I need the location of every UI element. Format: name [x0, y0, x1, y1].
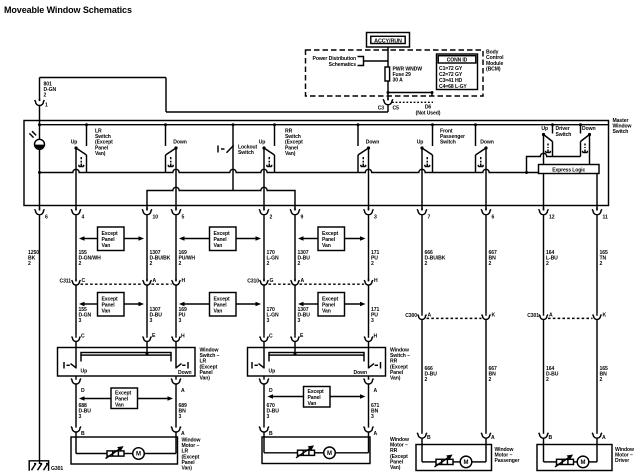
svg-text:A: A	[153, 278, 157, 284]
svg-text:Switch: Switch	[556, 132, 572, 138]
window switch LR pin D	[71, 376, 85, 394]
fuse PWR WNDW Fuse 29 30A	[385, 67, 422, 84]
switch RR box Down	[354, 362, 381, 376]
wire 1307 D-BU/BK	[146, 215, 148, 281]
svg-text:B: B	[269, 431, 273, 437]
window switch RR label	[390, 348, 410, 382]
node D6 branch wire	[387, 91, 434, 96]
svg-text:A: A	[491, 435, 495, 441]
svg-text:2: 2	[600, 377, 603, 383]
svg-text:C300: C300	[405, 313, 417, 319]
svg-text:3: 3	[79, 318, 82, 324]
wire into LR motor A	[175, 432, 177, 437]
svg-text:9: 9	[301, 215, 304, 221]
svg-text:H: H	[181, 334, 185, 340]
BCM dashed box	[306, 50, 484, 96]
wire 171 PU lower	[368, 285, 370, 335]
connector C311 pin H	[172, 278, 186, 285]
svg-text:A: A	[428, 313, 432, 319]
window switch RR box	[248, 348, 386, 377]
svg-text:ACCY/RUN: ACCY/RUN	[374, 39, 402, 45]
svg-text:Switch: Switch	[613, 129, 629, 135]
wire label 155 D-GN 3	[79, 307, 92, 324]
switch RR box Up	[252, 362, 275, 375]
svg-text:Van: Van	[308, 401, 317, 407]
lockout switch	[218, 123, 258, 190]
svg-text:Van): Van)	[200, 376, 211, 382]
connector C3 C5	[378, 98, 399, 112]
wire into LR motor B	[75, 432, 77, 437]
wire RR up output	[263, 148, 265, 210]
svg-text:Van: Van	[115, 403, 124, 409]
wire label 164 D-BU 2	[546, 366, 559, 383]
connector C301	[527, 313, 592, 319]
window switch LR box	[58, 348, 196, 377]
wire RR down output	[368, 148, 370, 210]
pin 11 master	[592, 208, 608, 221]
svg-text:A: A	[301, 278, 305, 284]
svg-text:C4=68 L-GY: C4=68 L-GY	[439, 84, 467, 90]
svg-text:2: 2	[371, 261, 374, 267]
svg-text:Van: Van	[322, 309, 331, 315]
wire driver down output	[590, 135, 598, 211]
switch driver Up	[542, 123, 554, 156]
svg-text:Passenger: Passenger	[495, 458, 520, 464]
switch LR box Up	[64, 362, 87, 375]
wire label 170 L-GN 2	[267, 250, 279, 267]
svg-text:(BCM): (BCM)	[486, 67, 501, 73]
svg-text:2: 2	[28, 261, 31, 267]
svg-text:C301: C301	[527, 313, 539, 319]
wire into LR switch E	[146, 342, 148, 353]
wire into driver motor A	[596, 438, 598, 444]
except panel van note A1	[79, 227, 144, 251]
svg-text:2: 2	[270, 215, 273, 221]
svg-text:M: M	[464, 460, 469, 466]
svg-text:Up: Up	[81, 369, 88, 375]
connector C310 pin G	[260, 278, 274, 285]
except panel van note B1	[79, 293, 144, 317]
svg-text:H: H	[374, 278, 378, 284]
switch RR Up	[262, 123, 276, 172]
window motor RR box	[262, 437, 370, 464]
svg-text:D-BU/BK: D-BU/BK	[425, 256, 446, 262]
svg-text:Van: Van	[322, 243, 331, 249]
RR switch label	[285, 129, 303, 157]
svg-text:1: 1	[45, 103, 48, 109]
svg-text:Down: Down	[178, 370, 191, 376]
wire label 667 BN 2	[489, 250, 497, 267]
wire label 688 D-BU 3	[79, 403, 92, 420]
wire 1307 D-BU	[146, 285, 148, 335]
svg-text:2: 2	[298, 261, 301, 267]
svg-text:3: 3	[371, 318, 374, 324]
svg-text:A: A	[181, 388, 185, 394]
svg-text:H: H	[182, 278, 186, 284]
svg-text:A: A	[549, 313, 553, 319]
svg-text:2: 2	[546, 261, 549, 267]
pin 9 master	[290, 208, 303, 221]
svg-text:C: C	[81, 334, 85, 340]
svg-text:B: B	[81, 431, 85, 437]
window motor driver label	[615, 447, 634, 464]
wire label 170 L-GN 3	[267, 307, 279, 324]
svg-text:M: M	[136, 452, 141, 458]
connector C310 pin H	[364, 278, 378, 285]
svg-text:3: 3	[374, 215, 377, 221]
wire label 1307 D-BU 2	[298, 250, 311, 267]
pin 2 master	[259, 208, 272, 221]
pin 12 master	[539, 208, 555, 221]
svg-text:G301: G301	[51, 466, 63, 472]
wire label 171 PU 2	[371, 250, 379, 267]
svg-text:Van): Van)	[390, 465, 401, 471]
driver switch label	[541, 126, 595, 138]
wire 1307 D-BU lower	[294, 285, 296, 335]
svg-text:Van: Van	[214, 309, 223, 315]
svg-text:C: C	[82, 278, 86, 284]
wire ACCY/RUN to fuse	[387, 47, 389, 67]
wire 165 TN	[596, 215, 598, 313]
wire pin1 to bus	[39, 106, 41, 140]
svg-text:Van): Van)	[390, 376, 401, 382]
wire lamp to ground bus	[38, 149, 41, 210]
except panel van note A2	[179, 227, 261, 251]
connector C300 pin A	[418, 313, 432, 320]
connector C300 pin K	[482, 313, 496, 320]
svg-text:11: 11	[603, 215, 608, 221]
svg-text:Moveable Window Schematics: Moveable Window Schematics	[4, 5, 132, 15]
switch LR Up	[74, 123, 88, 172]
svg-text:A: A	[374, 388, 378, 394]
connector C301 pin A	[539, 313, 553, 320]
feed bus wire	[38, 123, 609, 126]
svg-text:2: 2	[425, 377, 428, 383]
wire label 155 D-GN/WH 2	[79, 250, 102, 267]
connector pin 1	[35, 98, 48, 108]
svg-text:G: G	[270, 278, 274, 284]
pin 10 master	[142, 208, 158, 221]
svg-text:CONN ID: CONN ID	[447, 58, 468, 64]
svg-text:D: D	[269, 388, 273, 394]
svg-text:Van): Van)	[285, 151, 296, 157]
wire label 671 BN 3	[371, 403, 379, 420]
svg-text:C5: C5	[393, 106, 400, 112]
svg-text:M: M	[327, 451, 332, 457]
wire into RR switch C	[263, 342, 265, 369]
wire 164 L-BU	[543, 215, 545, 313]
wire 164 D-BU lower	[543, 320, 545, 431]
connector C300	[405, 313, 481, 319]
window motor driver box	[537, 445, 612, 471]
wire into LR switch H	[175, 342, 177, 369]
svg-text:Driver: Driver	[615, 458, 629, 464]
svg-text:Down: Down	[582, 126, 595, 132]
window motor LR pin B	[71, 425, 85, 437]
express logic module	[539, 165, 600, 174]
svg-text:3: 3	[298, 318, 301, 324]
switch passenger Up	[420, 123, 434, 172]
svg-text:2: 2	[489, 261, 492, 267]
connector C310	[247, 279, 364, 285]
svg-text:2: 2	[44, 93, 47, 99]
wire into passenger motor A	[485, 438, 487, 444]
window motor LR pin A	[171, 425, 185, 437]
window switch RR pin A out	[364, 376, 378, 394]
svg-text:3: 3	[179, 318, 182, 324]
wire 1250 BK to ground	[39, 215, 41, 464]
wire label 666 D-BU 2	[425, 366, 438, 383]
wire 165 BN lower	[596, 320, 598, 431]
lockout feed wire 1307	[147, 187, 295, 210]
svg-text:B: B	[549, 435, 553, 441]
window motor passenger pin B	[417, 431, 431, 441]
window motor driver internals	[544, 445, 598, 468]
svg-text:6: 6	[492, 215, 495, 221]
svg-text:Up: Up	[541, 126, 548, 132]
node D6 (Not Used) label	[392, 102, 441, 116]
wire LR up output	[75, 148, 77, 210]
except panel van note C2	[268, 387, 366, 408]
window switch LR pin C	[72, 334, 85, 342]
svg-text:H: H	[374, 334, 378, 340]
svg-text:Van: Van	[102, 309, 111, 315]
connector C311	[60, 279, 172, 285]
svg-text:Van: Van	[102, 243, 111, 249]
window motor RR pin B	[259, 425, 273, 437]
master window switch label	[613, 118, 632, 135]
svg-text:2: 2	[489, 377, 492, 383]
wire label 169 PU 3	[179, 307, 187, 324]
wire 670 D-BU	[263, 384, 265, 425]
window switch LR label	[200, 348, 220, 382]
window motor LR box	[71, 437, 178, 464]
front passenger switch label	[440, 129, 465, 146]
pin 3 master	[364, 208, 377, 221]
wire 671 BN	[368, 384, 370, 425]
connector C311 pin C	[72, 278, 86, 285]
except panel van note B2	[179, 293, 261, 317]
svg-text:Down: Down	[354, 370, 367, 376]
window switch RR pin E	[291, 333, 304, 342]
pin 6 passenger master	[481, 208, 494, 221]
wire 688 D-BU	[75, 384, 77, 425]
wire C5 to master switch pin 1	[40, 78, 389, 113]
svg-text:5: 5	[182, 215, 185, 221]
wire 667 BN lower	[485, 320, 487, 431]
body control module label	[486, 50, 504, 73]
except panel van note B3	[298, 293, 366, 317]
CONN ID table	[437, 54, 478, 90]
wire 171 PU	[368, 215, 370, 281]
wire passenger down output	[485, 148, 487, 210]
svg-text:Switch: Switch	[238, 150, 254, 156]
driver ground wire	[525, 153, 581, 174]
window motor driver pin B	[539, 431, 553, 441]
window switch LR bridge	[81, 352, 171, 361]
wire 170 L-GN	[263, 215, 265, 281]
wire 169 PU	[175, 285, 177, 335]
window motor passenger pin A	[481, 431, 495, 441]
wire label 670 D-BU 3	[267, 403, 280, 420]
svg-text:2: 2	[267, 261, 270, 267]
window motor LR label	[182, 438, 201, 472]
wire label 165 TN 2	[600, 250, 608, 267]
svg-text:Down: Down	[480, 140, 493, 146]
window motor passenger internals	[422, 445, 486, 468]
svg-text:A: A	[181, 431, 185, 437]
wire into driver motor B	[543, 438, 545, 444]
switch LR Down	[164, 123, 178, 172]
svg-text:D: D	[81, 388, 85, 394]
svg-text:2: 2	[546, 377, 549, 383]
svg-text:6: 6	[45, 215, 48, 221]
wire label 801 D-GN 2	[44, 82, 57, 99]
wire 169 PU/WH	[175, 215, 177, 281]
window switch RR bridge	[269, 352, 364, 361]
wire label 1307 D-BU/BK 2	[150, 250, 171, 267]
svg-text:7: 7	[428, 215, 431, 221]
window switch RR pin D	[259, 376, 273, 394]
wire 667 BN	[485, 215, 487, 313]
ground bus wire	[40, 169, 539, 172]
window motor driver pin A	[592, 431, 606, 441]
except panel van note A3	[298, 227, 366, 251]
window switch RR pin C	[260, 334, 273, 342]
pin 6 master	[35, 208, 48, 221]
wire 666 D-BU lower	[421, 320, 423, 431]
wire into RR switch H	[368, 342, 370, 369]
svg-text:Up: Up	[269, 369, 276, 375]
svg-text:3: 3	[267, 318, 270, 324]
wire label 1250 BK 2	[28, 250, 39, 267]
wire 1307 D-BU rr	[294, 215, 296, 281]
wire label 689 BN 3	[179, 403, 187, 420]
svg-text:Up: Up	[71, 140, 78, 146]
pin 4 master	[71, 208, 84, 221]
svg-text:C311: C311	[60, 279, 72, 285]
wire passenger up output	[421, 148, 423, 210]
svg-text:3: 3	[79, 414, 82, 420]
svg-text:C3: C3	[378, 106, 385, 112]
wire label 171 PU 3	[371, 307, 379, 324]
svg-text:Express Logic: Express Logic	[552, 167, 585, 173]
svg-text:2: 2	[600, 261, 603, 267]
switch ACCY/RUN	[367, 33, 410, 48]
illumination lamp	[29, 131, 44, 149]
wire 155 D-GN/WH	[75, 215, 77, 281]
wire label 164 L-BU 2	[546, 250, 558, 267]
master window switch box	[24, 121, 609, 206]
svg-text:C310: C310	[247, 279, 259, 285]
wire label 169 PU/WH 2	[179, 250, 196, 267]
svg-text:M: M	[581, 460, 586, 466]
svg-text:C: C	[269, 334, 273, 340]
svg-text:A: A	[602, 435, 606, 441]
svg-text:2: 2	[150, 261, 153, 267]
svg-text:Up: Up	[417, 140, 424, 146]
wire fuse to connector C3	[387, 81, 389, 100]
power distribution schematics reference	[313, 56, 388, 68]
svg-text:Up: Up	[259, 140, 266, 146]
except panel van note C1	[79, 388, 173, 409]
connector C301 pin K	[593, 313, 607, 320]
switch LR box Down	[176, 362, 191, 376]
svg-text:Van: Van	[214, 243, 223, 249]
switch RR Down	[357, 123, 371, 172]
window motor passenger label	[495, 447, 520, 464]
wire 170 L-GN lower	[263, 285, 265, 335]
wire into RR motor B	[263, 432, 265, 437]
svg-text:10: 10	[153, 215, 159, 221]
svg-text:(Not Used): (Not Used)	[416, 110, 441, 116]
svg-text:4: 4	[82, 215, 85, 221]
svg-text:2: 2	[425, 261, 428, 267]
wire label 165 BN 2	[600, 366, 608, 383]
window switch RR pin H	[364, 334, 377, 342]
pin 7 master	[417, 208, 430, 221]
switch passenger Down	[474, 123, 488, 172]
wire into passenger motor B	[421, 438, 423, 444]
wire label 667 BN 2 lower	[489, 366, 497, 383]
svg-text:D-BU/BK: D-BU/BK	[150, 256, 171, 262]
svg-text:2: 2	[79, 261, 82, 267]
wire label 1307 D-BU 3	[150, 307, 163, 324]
svg-text:Van): Van)	[182, 466, 193, 472]
svg-text:Down: Down	[173, 140, 186, 146]
ground G301	[29, 461, 63, 472]
wire label 1307 D-BU 3 rr	[298, 307, 311, 324]
svg-text:2: 2	[179, 261, 182, 267]
svg-text:Van): Van)	[95, 151, 106, 157]
switch driver Down	[579, 123, 591, 156]
svg-text:Down: Down	[366, 140, 379, 146]
connector C310 pin A	[291, 278, 305, 285]
svg-text:Switch: Switch	[440, 140, 456, 146]
window motor LR internals	[76, 437, 176, 459]
wire LR down output	[175, 148, 177, 210]
wire driver up output	[543, 135, 545, 211]
connector C311 pin A	[143, 278, 157, 285]
wire into RR switch E	[294, 342, 296, 353]
svg-text:3: 3	[371, 414, 374, 420]
svg-text:K: K	[492, 313, 496, 319]
LR switch label	[95, 129, 113, 157]
window motor passenger box	[416, 445, 492, 471]
window switch LR pin H	[172, 334, 185, 342]
window motor RR label	[390, 437, 409, 471]
window motor RR pin A	[364, 425, 378, 437]
wire into LR switch C	[75, 342, 77, 369]
svg-text:Schematics: Schematics	[329, 62, 357, 68]
svg-text:3: 3	[179, 414, 182, 420]
svg-text:D-GN/WH: D-GN/WH	[79, 256, 102, 262]
svg-text:12: 12	[549, 215, 555, 221]
svg-text:A: A	[374, 431, 378, 437]
wire label 666 D-BU/BK 2	[425, 250, 446, 267]
window motor RR internals	[264, 437, 369, 459]
svg-text:B: B	[427, 435, 431, 441]
svg-text:3: 3	[267, 414, 270, 420]
wire 689 BN	[175, 384, 177, 425]
pin 5 master	[171, 208, 184, 221]
svg-text:30 A: 30 A	[393, 78, 404, 84]
svg-text:3: 3	[150, 318, 153, 324]
wire 666 D-BU/BK	[421, 215, 423, 313]
window switch LR pin A out	[171, 376, 185, 394]
wire into RR motor A	[368, 432, 370, 437]
wire 155 D-GN	[75, 285, 77, 335]
